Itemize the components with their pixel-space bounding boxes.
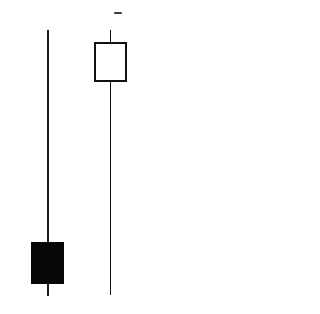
left candle wick (vertical line) — [47, 30, 49, 296]
right candle wick (vertical line) — [110, 30, 112, 295]
left candle body (filled black, bearish) — [31, 242, 64, 284]
small dash mark above right candle — [114, 12, 122, 15]
right candle body (hollow white, bullish) — [94, 42, 127, 82]
